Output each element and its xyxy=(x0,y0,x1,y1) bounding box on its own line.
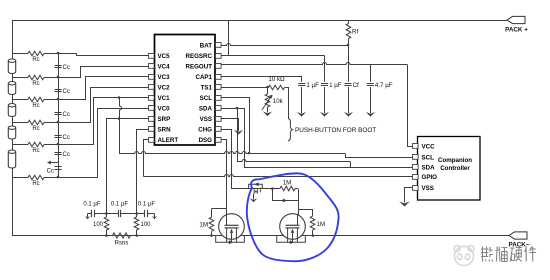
svg-text:SRN: SRN xyxy=(158,126,172,133)
svg-text:Cc: Cc xyxy=(63,152,70,158)
svg-text:BAT: BAT xyxy=(200,42,212,49)
wire Rc5 to Cc node xyxy=(44,144,58,146)
wire Rc6 to Cc node xyxy=(44,177,58,179)
wire VC4 net xyxy=(59,67,149,78)
svg-text:Cc: Cc xyxy=(63,112,70,118)
wire Rc4 to Cc node xyxy=(44,122,58,124)
resistor Rsns xyxy=(113,233,131,238)
pin VC5 xyxy=(149,54,155,59)
svg-text:1M: 1M xyxy=(317,221,326,228)
wire SRN net xyxy=(137,130,149,214)
resistor 1M gate-source Q1 xyxy=(211,209,213,217)
wire ALERT net xyxy=(144,140,149,177)
pin VC2 xyxy=(149,85,155,90)
capacitor Cf at x=348 xyxy=(348,45,350,82)
wire Q1 gate lead xyxy=(226,207,228,215)
pin companion GPIO xyxy=(413,175,419,180)
resistor 100 B xyxy=(136,214,138,218)
svg-text:100: 100 xyxy=(141,222,152,228)
pin VC1 xyxy=(149,96,155,101)
pin companion SCL xyxy=(413,155,419,160)
wire VC5 net xyxy=(59,54,149,56)
junction SRP filter xyxy=(105,212,108,215)
wire cell tap 3 xyxy=(12,99,28,101)
svg-text:SCL: SCL xyxy=(200,95,213,102)
junction SDA riser xyxy=(236,107,239,110)
wire SRP net xyxy=(107,119,149,214)
svg-text:10k: 10k xyxy=(273,98,284,105)
junction Cc column tap 5 xyxy=(57,143,60,146)
resistor Rc3 xyxy=(28,97,44,102)
arrow Cc6 pointer xyxy=(50,162,58,164)
wire Q3 to 1M xyxy=(247,188,280,190)
pin SRN xyxy=(149,127,155,132)
svg-text:VC2: VC2 xyxy=(158,84,171,91)
junction BAT Rf node xyxy=(347,44,350,47)
junction TS1 node xyxy=(266,86,269,89)
pin VC4 xyxy=(149,64,155,69)
resistor Rc6 xyxy=(28,175,44,180)
resistor 1M gate chg xyxy=(280,186,295,191)
svg-text:Rc: Rc xyxy=(32,81,39,87)
junction SRN filter xyxy=(135,212,138,215)
wire chg loop with arrow xyxy=(273,189,299,201)
junction Cc column tap 2 xyxy=(57,76,60,79)
wire sense cap row xyxy=(88,213,92,215)
svg-text:1 µF: 1 µF xyxy=(329,82,342,89)
cell 3 xyxy=(8,105,15,116)
wire TS1 xyxy=(221,87,267,89)
junction riser SRP row xyxy=(118,117,121,120)
cell 4 xyxy=(8,128,15,139)
svg-text:10 kΩ: 10 kΩ xyxy=(268,76,285,83)
capacitor Cc2 xyxy=(54,90,61,92)
capacitor 0.1uF A xyxy=(92,210,95,217)
pin companion VSS xyxy=(413,186,419,191)
wire ALERT to GPIO bus xyxy=(144,175,413,177)
svg-text:Cc: Cc xyxy=(63,65,70,71)
svg-text:1 µF: 1 µF xyxy=(306,82,319,89)
wire Cc column xyxy=(58,53,60,177)
ground VSS xyxy=(238,130,240,131)
resistor 10 kOhm xyxy=(269,85,285,90)
svg-text:Rc: Rc xyxy=(32,57,39,63)
stub arrow right sense xyxy=(154,214,156,218)
svg-text:REGSRC: REGSRC xyxy=(186,53,213,60)
wire SDA riser A xyxy=(237,108,239,161)
pin BAT xyxy=(216,43,222,48)
watermark text xyxy=(481,247,493,262)
cell 5 xyxy=(8,152,15,168)
svg-text:Rsns: Rsns xyxy=(115,240,129,246)
pin companion VCC xyxy=(413,144,419,149)
pin VSS xyxy=(216,117,222,122)
svg-text:1M: 1M xyxy=(283,179,292,186)
wire cell tap 4 xyxy=(12,122,28,124)
wire left stack rail xyxy=(12,20,14,236)
svg-text:Controller: Controller xyxy=(440,165,470,172)
wire cell tap 6 xyxy=(12,177,28,179)
wire cell tap 2 xyxy=(12,77,28,79)
svg-text:100: 100 xyxy=(93,222,104,228)
wire SCL pin stub xyxy=(222,98,250,154)
pin VC0 xyxy=(149,106,155,111)
svg-text:VC1: VC1 xyxy=(158,95,171,102)
svg-text:CAP1: CAP1 xyxy=(195,74,212,81)
capacitor 0.1uF C xyxy=(145,210,148,217)
transistor Q2 CHG NFET xyxy=(280,214,306,240)
wire bottom rail right segment xyxy=(301,235,509,237)
svg-text:GPIO: GPIO xyxy=(422,174,438,181)
junction chg loop xyxy=(271,187,274,190)
wire 1M Q2 step xyxy=(299,209,313,211)
svg-text:Cc: Cc xyxy=(47,169,54,175)
wire REGSRC to 1uF B xyxy=(229,55,325,57)
wire bottom rail PACK- net left segment xyxy=(12,235,223,237)
pin companion SDA xyxy=(413,165,419,170)
svg-text:Companion: Companion xyxy=(438,157,472,164)
wire VC1 riser to SCL bus xyxy=(120,98,122,154)
capacitor Cc3 xyxy=(54,113,61,115)
svg-text:VSS: VSS xyxy=(422,185,434,192)
svg-text:Cc: Cc xyxy=(63,135,70,141)
svg-text:0.1 µF: 0.1 µF xyxy=(138,202,155,208)
wire VC1 net xyxy=(59,98,149,145)
pin DSG xyxy=(216,138,222,143)
resistor Rc2 xyxy=(28,75,44,80)
wire pushbutton drop xyxy=(288,87,290,119)
wire companion VSS ground xyxy=(405,188,413,198)
pin CHG xyxy=(216,127,222,132)
capacitor Cc5 xyxy=(54,153,61,155)
cell 1 xyxy=(8,61,15,74)
transistor Q3 small FET xyxy=(249,184,263,188)
IC U2 companion controller xyxy=(418,137,481,201)
capacitor Cc1 xyxy=(54,66,61,68)
svg-text:PACK +: PACK + xyxy=(505,27,528,34)
wire VC3 net xyxy=(59,77,149,100)
wire REGSRC riser to top rail xyxy=(228,20,230,56)
pin REGSRC xyxy=(216,54,222,59)
wire REGOUT bus xyxy=(221,63,407,65)
wire SDA pin stub xyxy=(221,108,244,110)
capacitor Cc4 xyxy=(54,136,61,138)
svg-text:VC0: VC0 xyxy=(158,105,171,112)
svg-text:SCL: SCL xyxy=(422,154,435,161)
wire cell tap 1 xyxy=(12,53,28,55)
svg-text:1M: 1M xyxy=(199,222,208,229)
svg-text:SDA: SDA xyxy=(422,165,436,172)
wire Rc3 to Cc node xyxy=(44,99,58,101)
pin TS1 xyxy=(216,85,222,90)
wire cell tap 5 xyxy=(12,144,28,146)
junction rail SRN xyxy=(135,234,138,237)
connector PACK- xyxy=(509,232,527,239)
annotation blue circle xyxy=(247,173,339,261)
pin CAP1 xyxy=(216,75,222,80)
wire DSG net xyxy=(222,140,227,208)
transistor Q1 DSG NFET xyxy=(219,214,245,240)
svg-text:VC3: VC3 xyxy=(158,74,171,81)
svg-text:Cf: Cf xyxy=(353,82,359,89)
svg-text:Cc: Cc xyxy=(63,89,70,95)
svg-text:SRP: SRP xyxy=(158,116,171,123)
wire Q2 gate lead xyxy=(298,189,300,215)
junction rail SRP xyxy=(105,234,108,237)
svg-text:Rc: Rc xyxy=(32,148,39,154)
svg-text:VC4: VC4 xyxy=(158,63,171,70)
wire SDA riser B xyxy=(244,108,246,167)
pin ALERT xyxy=(149,138,155,143)
wire CHG net xyxy=(222,130,248,189)
arrow thermistor xyxy=(262,97,271,111)
wire REGSRC pin stub xyxy=(221,55,228,57)
resistor 100 A xyxy=(106,214,108,218)
svg-text:DSG: DSG xyxy=(199,137,213,144)
resistor Rf xyxy=(348,20,350,24)
capacitor 1 uF at x=324.5 xyxy=(324,56,326,82)
capacitor Cc6 xyxy=(54,167,61,170)
watermark panda logo xyxy=(454,246,474,266)
junction rail 1M Q2 xyxy=(312,234,315,237)
wire VSS stub xyxy=(222,119,239,131)
pin SDA xyxy=(216,106,222,111)
svg-text:REGOUT: REGOUT xyxy=(186,63,213,70)
junction SCL bus xyxy=(248,152,251,155)
svg-text:SDA: SDA xyxy=(199,105,213,112)
svg-text:Rc: Rc xyxy=(32,126,39,132)
wire Rc1 to Cc node xyxy=(44,53,58,55)
resistor Rc4 xyxy=(28,120,44,125)
wire VC0 net xyxy=(59,109,149,178)
wire top rail PACK+ net xyxy=(12,20,507,22)
junction Cc column tap 6 xyxy=(57,176,60,179)
svg-text:VCC: VCC xyxy=(422,143,436,150)
connector PACK+ xyxy=(507,16,525,23)
thermistor 10k xyxy=(267,87,269,94)
cell 2 xyxy=(8,83,15,94)
pin SRP xyxy=(149,117,155,122)
junction Cc column tap 3 xyxy=(57,98,60,101)
pin VC3 xyxy=(149,75,155,80)
capacitor 4.7 uF at x=370.3 xyxy=(370,65,372,82)
IC U1 battery monitor xyxy=(155,35,216,146)
wire CAP1 net xyxy=(221,76,302,78)
svg-text:CHG: CHG xyxy=(198,126,212,133)
svg-text:Rf: Rf xyxy=(352,29,358,36)
svg-text:4.7 µF: 4.7 µF xyxy=(375,82,393,89)
wire Rf node to Cf xyxy=(348,45,350,65)
junction rail 1M Q1 xyxy=(210,234,213,237)
junction Cc column tap 1 xyxy=(57,52,60,55)
resistor 1M gate-source Q2 xyxy=(312,209,314,216)
resistor Rc5 xyxy=(28,142,44,147)
pin SCL xyxy=(216,96,222,101)
pin REGOUT xyxy=(216,64,222,69)
wire VC2 net xyxy=(59,88,149,123)
junction Cc column tap 4 xyxy=(57,121,60,124)
svg-text:ALERT: ALERT xyxy=(158,137,179,144)
svg-text:0.1 µF: 0.1 µF xyxy=(111,202,128,208)
wire Rc2 to Cc node xyxy=(44,77,58,79)
ground companion xyxy=(404,198,406,203)
wire BAT to Rf node xyxy=(221,44,348,46)
brace push-button xyxy=(288,119,293,141)
svg-text:TS1: TS1 xyxy=(201,84,213,91)
wire SDA bus B xyxy=(244,167,412,169)
svg-text:PUSH-BUTTON FOR BOOT: PUSH-BUTTON FOR BOOT xyxy=(295,127,376,134)
capacitor 1 uF at x=301.8 xyxy=(301,77,303,82)
svg-text:VC5: VC5 xyxy=(158,53,171,60)
svg-text:Rc: Rc xyxy=(32,103,39,109)
svg-text:0.1 µF: 0.1 µF xyxy=(83,202,100,208)
wire SDA bus A xyxy=(237,160,350,162)
wire SCL bus xyxy=(119,152,345,154)
wire VCC riser xyxy=(408,65,414,147)
capacitor 0.1uF B xyxy=(119,210,121,217)
svg-text:Rc: Rc xyxy=(32,181,39,187)
ground Q3 xyxy=(253,193,255,196)
junction VC1 node xyxy=(118,96,121,99)
resistor Rc1 xyxy=(28,51,44,56)
wire DSG gate tee xyxy=(211,208,226,210)
stub arrow left sense xyxy=(87,214,89,218)
svg-text:VSS: VSS xyxy=(200,116,212,123)
wire bottom rail between FETs xyxy=(241,235,285,237)
